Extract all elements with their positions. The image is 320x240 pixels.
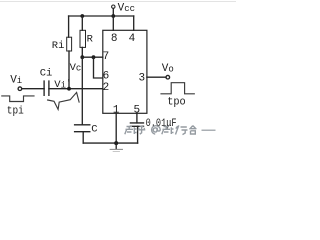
resistor Ri: [67, 37, 72, 51]
wire bottom ground rail: [83, 142, 137, 144]
svg-text:8: 8: [111, 33, 118, 45]
svg-text:Vo: Vo: [162, 63, 174, 75]
wire pin 3 output: [147, 76, 166, 78]
wire capacitor C2 to ground rail: [137, 126, 139, 143]
svg-text:Vcc: Vcc: [118, 3, 135, 15]
wire top rail: [69, 15, 134, 17]
wire rail down to R top: [81, 16, 83, 30]
wire pin 4 stub: [133, 16, 135, 30]
waveform tpi input pulse: [2, 96, 34, 102]
svg-text:tpi: tpi: [7, 106, 24, 118]
node junction dot R bottom: [80, 55, 84, 59]
node junction dot pin8/Vcc: [111, 14, 115, 18]
svg-text:C: C: [91, 124, 97, 136]
node junction dot ground: [114, 141, 118, 145]
svg-text:tpo: tpo: [167, 96, 186, 108]
Vi terminal circle: [18, 87, 22, 91]
svg-text:Ci: Ci: [40, 67, 53, 79]
IC 555 box U1: [103, 30, 147, 113]
resistor R: [80, 30, 86, 47]
watermark char at: [152, 126, 161, 135]
Vcc terminal circle: [112, 5, 115, 8]
Vo terminal circle: [166, 75, 170, 79]
svg-text:6: 6: [103, 70, 110, 82]
wire Ri bottom to Vi' node: [68, 51, 70, 89]
svg-text:3: 3: [139, 72, 146, 84]
watermark char he: [190, 126, 197, 134]
wire Vcc terminal to top rail: [112, 8, 114, 16]
capacitor Ci: [44, 81, 49, 95]
capacitor C2 0.01uF: [130, 123, 143, 126]
watermark char hu: [138, 126, 146, 134]
waveform Vi' differentiated spikes: [48, 92, 80, 109]
wire pin 7: [82, 56, 103, 58]
watermark char zhi2: [162, 127, 174, 135]
wire pin 8 stub: [112, 16, 114, 30]
wire Vi to Ci: [22, 88, 44, 90]
wire C bottom to ground rail: [82, 132, 84, 143]
node junction dot Vi': [67, 87, 71, 91]
watermark zhihu: [125, 125, 216, 134]
wire pin 1 to ground rail: [115, 113, 117, 143]
wire Ci to pin 2: [49, 88, 103, 90]
node junction dot R top: [80, 14, 84, 18]
svg-text:7: 7: [103, 51, 110, 63]
svg-text:Ri: Ri: [52, 40, 65, 52]
node junction dot 6-7 tie: [92, 55, 96, 59]
waveform tpo output pulse: [161, 83, 194, 94]
wire Vc node down to capacitor C: [81, 57, 83, 124]
watermark char yi: [202, 129, 216, 131]
wire R bottom to pin7 node: [81, 47, 83, 57]
ground symbol: [115, 143, 117, 149]
svg-text:4: 4: [129, 33, 136, 45]
wire pin 5 to capacitor: [136, 113, 138, 123]
watermark char xing: [176, 125, 188, 134]
svg-text:Vi: Vi: [10, 74, 22, 86]
capacitor C: [75, 125, 90, 132]
svg-text:2: 2: [103, 82, 110, 94]
svg-text:Vc: Vc: [70, 62, 82, 74]
watermark char zhi: [125, 127, 137, 135]
svg-text:R: R: [87, 33, 94, 45]
wire rail down to Ri top: [68, 16, 70, 37]
wire tie pin6 to pin7: [94, 57, 103, 78]
